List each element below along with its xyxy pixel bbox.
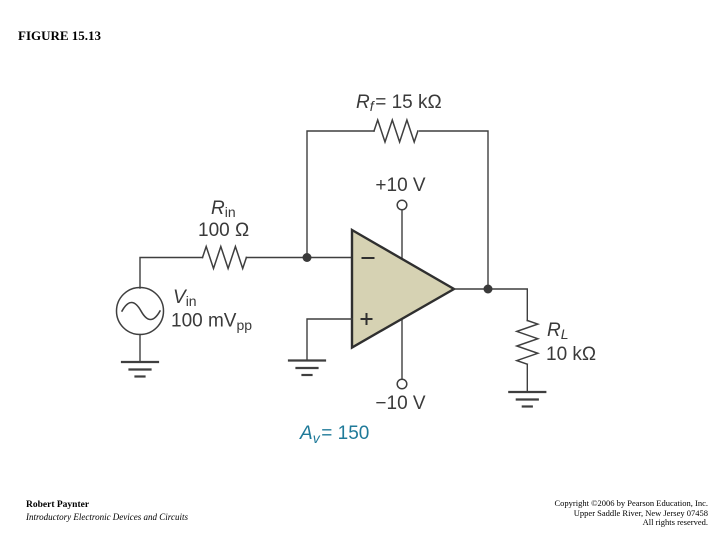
title FIGURE 15.13 — [18, 28, 101, 44]
ground (noninverting input) — [289, 361, 325, 376]
svg-text:100 Ω: 100 Ω — [198, 220, 249, 241]
wire: power rail vertical (under op-amp) — [401, 210, 403, 379]
wire: input from source to inverting node — [140, 258, 352, 289]
op-amp U1 — [352, 230, 454, 348]
node A (inverting input junction) — [303, 253, 312, 262]
credit footer — [26, 499, 188, 524]
copyright footer — [554, 499, 708, 528]
svg-text:−10 V: −10 V — [375, 393, 426, 414]
svg-text:+10 V: +10 V — [375, 175, 426, 196]
wire: feedback loop top and verticals — [307, 131, 488, 289]
resistor RL — [517, 321, 538, 365]
svg-text:Rin: Rin — [211, 198, 236, 220]
-V supply terminal — [397, 379, 407, 389]
resistor Rin — [203, 247, 247, 269]
+V supply terminal — [397, 200, 407, 210]
svg-text:10 kΩ: 10 kΩ — [546, 344, 596, 365]
svg-text:Rf = 15 kΩ: Rf = 15 kΩ — [356, 92, 442, 114]
resistor Rf — [374, 120, 418, 142]
svg-text:Av = 150: Av = 150 — [299, 423, 369, 446]
source Vin — [117, 288, 164, 335]
node B (output junction) — [484, 285, 493, 294]
op-amp plus pin mark — [362, 314, 372, 324]
wire: output — [454, 289, 527, 321]
ground (source) — [122, 362, 158, 377]
op-amp minus pin mark — [363, 257, 374, 259]
svg-text:RL: RL — [547, 320, 569, 342]
svg-text:Vin: Vin — [173, 287, 197, 309]
wire: noninverting input to ground — [307, 319, 352, 360]
ground (RL) — [509, 392, 545, 407]
wire: RL to ground — [526, 364, 528, 391]
svg-text:100 mVpp: 100 mVpp — [171, 311, 252, 334]
wire: source to ground — [139, 335, 141, 362]
